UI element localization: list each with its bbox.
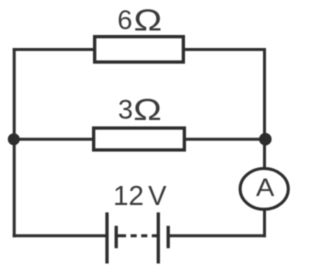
svg-text:V: V: [148, 180, 167, 211]
wire right vertical lower: [263, 210, 266, 238]
svg-text:Ω: Ω: [134, 4, 162, 38]
svg-text:12: 12: [113, 180, 144, 211]
wire top-right segment: [184, 48, 266, 51]
node right junction: [259, 133, 272, 146]
svg-text:6: 6: [117, 5, 132, 35]
wire bottom-right segment: [168, 234, 266, 237]
resistor R2 3 ohm: [94, 128, 185, 150]
battery long plate 1: [105, 212, 108, 263]
battery long plate 2: [157, 212, 160, 263]
wire middle-left segment: [14, 138, 93, 141]
wire right vertical upper: [263, 48, 266, 169]
node left junction: [8, 133, 20, 145]
ammeter A1: [240, 169, 288, 210]
battery V1 12V: [107, 212, 168, 263]
wire middle-right segment: [185, 138, 265, 141]
wire top-left segment: [13, 48, 94, 51]
svg-text:Ω: Ω: [133, 93, 161, 127]
battery dashed link: [117, 234, 158, 237]
wire bottom-left segment: [13, 234, 106, 237]
wire left vertical: [13, 48, 16, 237]
battery short plate 1: [115, 226, 118, 248]
battery short plate 2: [167, 226, 170, 248]
svg-text:A: A: [256, 173, 275, 202]
svg-text:3: 3: [118, 95, 133, 125]
resistor R1 6 ohm: [95, 37, 184, 62]
